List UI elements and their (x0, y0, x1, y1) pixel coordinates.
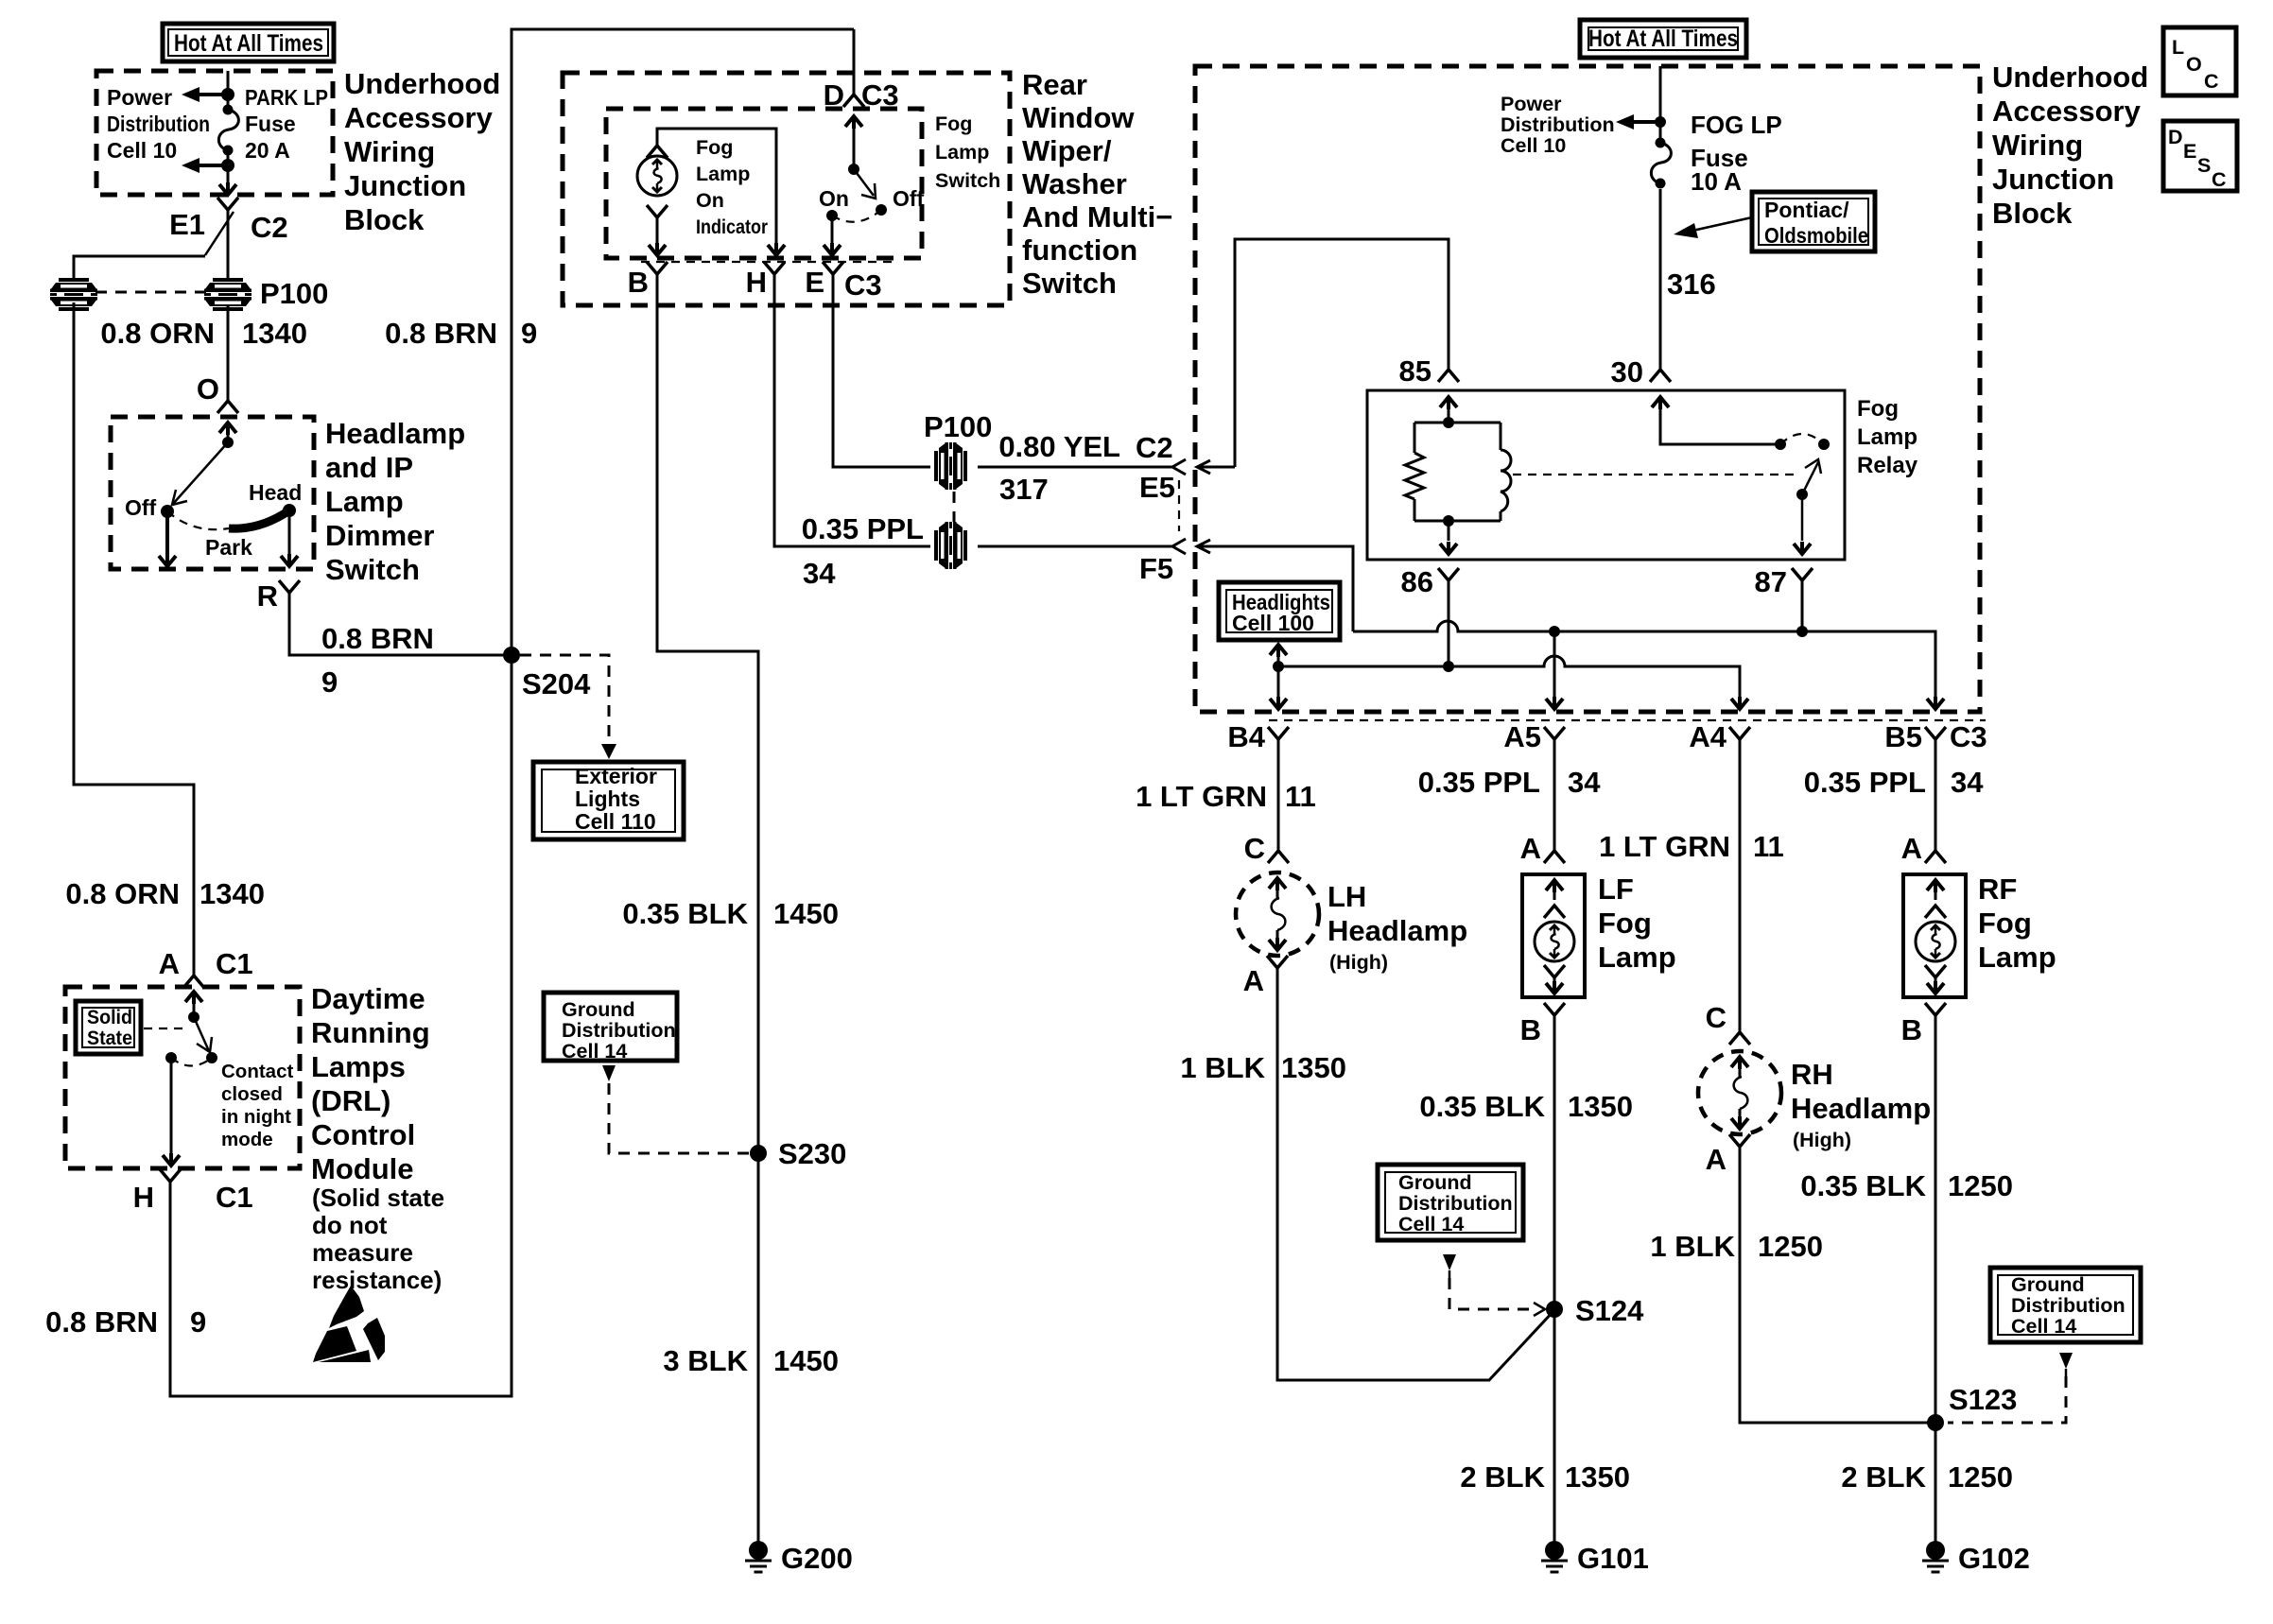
svg-text:Lamp: Lamp (1857, 424, 1917, 450)
svg-text:L: L (2172, 36, 2184, 59)
svg-text:Junction: Junction (344, 169, 466, 202)
svg-text:C3: C3 (861, 78, 899, 112)
terminal 86 (1438, 568, 1459, 580)
svg-text:P100: P100 (260, 277, 328, 310)
wire 0.8 ORN 1340 (C2 to dimmer O) (227, 304, 230, 401)
wire DRL contact to H output (163, 1058, 180, 1166)
connector P100 (left half, on E1 branch) (50, 278, 97, 311)
svg-text:A: A (1520, 832, 1541, 865)
svg-text:86: 86 (1401, 565, 1433, 598)
label Park (205, 535, 252, 560)
terminal B (RF fog lamp) (1925, 1003, 1946, 1015)
svg-text:Dimmer: Dimmer (325, 519, 434, 552)
wire relay pin 30 to common contact (1652, 397, 1780, 444)
svg-text:B4: B4 (1227, 720, 1265, 753)
wire A5 to LF fog lamp (1553, 739, 1556, 851)
dashed link Solid State to switch (144, 1028, 187, 1029)
terminal A/C1 (183, 976, 204, 988)
svg-text:B: B (1901, 1013, 1922, 1046)
svg-text:S124: S124 (1575, 1294, 1644, 1327)
terminal below indicator (647, 205, 668, 217)
node: bus 87 at A5 (1549, 626, 1560, 637)
svg-text:E: E (805, 266, 824, 299)
wire from Hot At All Times (right) (1659, 66, 1662, 141)
label 1250 (G102) (1948, 1460, 2013, 1494)
svg-text:RF: RF (1978, 872, 2017, 906)
wire E1 breakout diagonal (205, 212, 234, 255)
svg-text:Headlamp: Headlamp (1327, 914, 1467, 947)
wire Head contact down (281, 510, 298, 566)
connector C3 dashed line (junction block bottom) (1269, 719, 1986, 721)
node: Head contact (283, 504, 296, 517)
svg-text:Distribution: Distribution (107, 112, 210, 136)
wire E1 horizontal to left (74, 256, 205, 280)
svg-text:and IP: and IP (325, 451, 413, 484)
label 1450 (lower) (773, 1344, 839, 1377)
svg-text:E1: E1 (169, 208, 205, 241)
svg-text:Wiring: Wiring (344, 135, 435, 168)
svg-text:Block: Block (344, 203, 425, 236)
svg-text:E5: E5 (1139, 471, 1175, 504)
label 87 (1755, 565, 1787, 598)
label C2 (right) (1136, 431, 1173, 464)
svg-text:Window: Window (1022, 101, 1135, 134)
fuse FOG LP 10 A (1651, 138, 1671, 189)
svg-text:34: 34 (1568, 766, 1601, 799)
arrow to Power Distribution (right) (1616, 114, 1660, 130)
svg-text:Fog: Fog (1978, 907, 2032, 940)
wire A5 drop (1553, 631, 1556, 697)
label A (DRL input) (159, 947, 180, 980)
arrow to Headlights Cell 100 (1270, 645, 1287, 697)
label C3 (top) (861, 78, 899, 112)
svg-text:316: 316 (1667, 268, 1716, 301)
svg-text:S204: S204 (522, 667, 591, 700)
label: Fog Lamp Switch (935, 112, 1000, 192)
label 1340 (lower) (200, 877, 265, 910)
svg-text:Ground: Ground (562, 998, 635, 1021)
pin arrow F5 (1197, 540, 1235, 553)
svg-text:D: D (2168, 126, 2183, 148)
dashed travel arc Off to Park (167, 511, 229, 529)
label B (RF) (1901, 1013, 1922, 1046)
label S124 (1575, 1294, 1644, 1327)
ground G102 (1922, 1541, 1949, 1572)
svg-text:A: A (159, 947, 180, 980)
svg-text:Fog: Fog (1598, 907, 1652, 940)
svg-text:Accessory: Accessory (344, 101, 494, 134)
svg-text:1350: 1350 (1565, 1460, 1630, 1494)
node: relay common contact (1775, 439, 1786, 450)
terminal above indicator (647, 146, 668, 158)
svg-text:11: 11 (1753, 830, 1784, 863)
svg-text:2 BLK: 2 BLK (1460, 1460, 1545, 1494)
svg-text:0.8 BRN: 0.8 BRN (45, 1305, 158, 1339)
svg-text:Underhood: Underhood (344, 67, 500, 100)
svg-text:Junction: Junction (1992, 163, 2114, 196)
label: Contact closed in night mode (221, 1061, 293, 1150)
label 3 BLK (663, 1344, 748, 1377)
svg-text:mode: mode (221, 1129, 273, 1150)
label B (628, 266, 649, 299)
wire armature to pin 87 (1794, 494, 1811, 554)
label A (RF) (1901, 832, 1922, 865)
label: FOG LP Fuse 10 A (1691, 111, 1782, 196)
svg-text:Accessory: Accessory (1992, 95, 2142, 128)
label G102 (1958, 1542, 2030, 1575)
label 1 LT GRN (A4) (1599, 830, 1730, 863)
svg-text:O: O (2186, 53, 2202, 76)
terminal B4 (1268, 727, 1289, 739)
svg-text:Lamps: Lamps (311, 1050, 406, 1083)
label P100 (middle) (924, 410, 992, 443)
dashed wire S204 to Exterior Lights cell (520, 655, 616, 759)
terminal A (LH headlamp) (1267, 956, 1288, 968)
wire E5 to relay pin 85 (1235, 239, 1449, 467)
wire 0.8 BRN 9 long run (top and down) (170, 29, 854, 1396)
label P100 (260, 277, 328, 310)
svg-text:Hot At All Times: Hot At All Times (1588, 26, 1738, 52)
wire 316 (fuse to relay pin 30) (1659, 189, 1662, 370)
svg-text:Fog: Fog (935, 112, 972, 135)
label 0.80 YEL (998, 430, 1120, 463)
wire On contact down to E (824, 216, 841, 255)
svg-text:State: State (87, 1027, 132, 1049)
label A (LF) (1520, 832, 1541, 865)
label R (257, 579, 278, 613)
arrow to Power Distribution (upper) (182, 87, 228, 102)
DRL switch arm (194, 1017, 212, 1052)
svg-text:Cell 14: Cell 14 (562, 1040, 627, 1063)
label C1 (DRL output) (216, 1181, 253, 1214)
label B5 (1884, 720, 1922, 753)
label: Fog Lamp Relay (1857, 396, 1918, 478)
wire 0.80 YEL 317 (E to C2/E5) (833, 274, 1172, 467)
wire A4 to RH headlamp (1739, 739, 1742, 1032)
terminal fork F5 (1172, 539, 1186, 554)
terminal R (279, 580, 300, 593)
label 9 (R wire) (321, 665, 338, 699)
svg-text:LF: LF (1598, 872, 1634, 906)
svg-text:C: C (1706, 1001, 1726, 1034)
svg-text:34: 34 (803, 557, 836, 590)
RH headlamp (dashed circle) (1698, 1051, 1781, 1134)
svg-text:S230: S230 (778, 1137, 846, 1170)
relay armature arm (1802, 459, 1821, 494)
label F5 (1139, 552, 1173, 585)
svg-text:Head: Head (249, 480, 302, 505)
svg-text:Cell 10: Cell 10 (1501, 134, 1566, 157)
svg-text:H: H (746, 266, 767, 299)
label 0.35 BLK (622, 897, 748, 930)
svg-text:H: H (133, 1181, 154, 1214)
svg-text:A4: A4 (1689, 720, 1726, 753)
svg-text:Underhood: Underhood (1992, 60, 2148, 94)
svg-text:Headlamp: Headlamp (325, 417, 465, 450)
label 9 (DRL output) (190, 1305, 206, 1339)
svg-text:Washer: Washer (1022, 167, 1127, 200)
label 1 LT GRN (B4) (1136, 780, 1267, 813)
svg-text:11: 11 (1285, 780, 1316, 813)
svg-text:0.35 PPL: 0.35 PPL (802, 512, 924, 545)
svg-text:0.35 PPL: 0.35 PPL (1418, 766, 1540, 799)
dashed link coil to armature (1513, 474, 1795, 475)
Ground Distribution Cell 14 box (left) (544, 993, 677, 1063)
node S230 (750, 1145, 767, 1162)
Rear Window Wiper/Washer And Multi-function Switch dashed box (563, 73, 1010, 305)
LH headlamp (dashed circle) (1236, 872, 1319, 956)
dashed wire Ground Distribution to S230 (609, 1083, 750, 1153)
label E1 (169, 208, 205, 241)
node: bus 87 at pin 87 (1796, 626, 1808, 637)
wire indicator top to H drop (657, 129, 785, 255)
node: bus 86 at pin 86 (1443, 661, 1454, 672)
svg-text:Off: Off (893, 186, 925, 211)
wire C2 terminal to P100 (227, 210, 230, 278)
terminal B5 (1925, 727, 1946, 739)
label 34 (middle) (803, 557, 836, 590)
svg-text:Switch: Switch (1022, 267, 1117, 300)
label: Underhood Accessory Wiring Junction Block (left) (344, 67, 500, 236)
label 11 (A4) (1753, 830, 1784, 863)
label 0.8 ORN (lower) (65, 877, 180, 910)
Hot At All Times box (left) (163, 24, 334, 61)
label: RF Fog Lamp (1978, 872, 2056, 974)
svg-text:Fuse: Fuse (245, 112, 296, 136)
wire bus 87 (fog lamps feed) (1353, 621, 1935, 697)
node S204 (503, 647, 520, 664)
wire indicator bottom to B (649, 217, 666, 255)
label G200 (781, 1542, 853, 1575)
terminal 30 (1650, 370, 1671, 382)
svg-text:1450: 1450 (773, 1344, 839, 1377)
Solid State box (76, 1001, 141, 1054)
svg-text:30: 30 (1611, 355, 1643, 389)
svg-text:Power: Power (1501, 93, 1562, 115)
dashed connector link P100 (95, 291, 206, 294)
label 9 (top) (521, 317, 537, 350)
label H (fog switch) (746, 266, 767, 299)
LF Fog Lamp box (1522, 874, 1585, 997)
svg-text:0.35 PPL: 0.35 PPL (1804, 766, 1926, 799)
svg-text:0.80 YEL: 0.80 YEL (998, 430, 1120, 463)
arrow Pontiac/Oldsmobile to wire (1674, 217, 1752, 238)
svg-text:Distribution: Distribution (2011, 1294, 2126, 1317)
svg-text:9: 9 (321, 665, 338, 699)
node: power distribution tap upper (221, 88, 234, 101)
label G101 (1577, 1542, 1649, 1575)
arrow A4 at junction block edge (1731, 697, 1748, 709)
svg-text:C1: C1 (216, 947, 253, 980)
wire RH headlamp ground to S123 (1740, 1147, 1935, 1423)
svg-text:Cell 110: Cell 110 (575, 809, 656, 834)
arrow relay coil to pin 86 (1440, 521, 1457, 554)
Fog Lamp On Indicator circle (637, 156, 677, 196)
svg-text:1 BLK: 1 BLK (1180, 1051, 1265, 1084)
label 0.8 ORN (100, 317, 215, 350)
svg-text:D: D (824, 78, 844, 112)
wire 0.35 BLK 1450 (fog indicator B to S230) (657, 274, 758, 1153)
label 1 BLK (RH) (1650, 1230, 1735, 1263)
label C2 (251, 211, 288, 244)
svg-text:(Solid state: (Solid state (312, 1183, 444, 1212)
label: Rear Window Wiper/Washer And Multi-function Switch (1022, 68, 1172, 300)
svg-text:Block: Block (1992, 197, 2073, 230)
svg-text:S123: S123 (1949, 1383, 2017, 1416)
label Head (249, 480, 302, 505)
label B4 (1227, 720, 1265, 753)
label C3 (junction block) (1950, 720, 1987, 753)
svg-text:measure: measure (312, 1238, 413, 1267)
svg-text:Running: Running (311, 1016, 430, 1049)
Underhood Accessory Wiring Junction Block (right) dashed box (1195, 66, 1980, 712)
svg-text:closed: closed (221, 1083, 283, 1105)
Fog Lamp Switch inner dashed box (606, 109, 922, 258)
svg-text:O: O (197, 372, 219, 406)
svg-text:Off: Off (125, 495, 157, 520)
wire D feed from 0.8 BRN run (853, 29, 856, 95)
svg-text:On: On (819, 186, 849, 211)
label: RH Headlamp (High) (1791, 1058, 1931, 1151)
label 0.35 PPL (middle) (802, 512, 924, 545)
svg-text:Control: Control (311, 1118, 415, 1151)
svg-text:Solid: Solid (87, 1006, 132, 1028)
arrow below Ground Distribution Cell 14 (left) (602, 1065, 616, 1081)
svg-text:1 LT GRN: 1 LT GRN (1136, 780, 1267, 813)
label: PARK LP Fuse 20 A (245, 85, 328, 163)
RF Fog Lamp box (1903, 874, 1966, 997)
node S123 (1927, 1414, 1944, 1431)
svg-text:G102: G102 (1958, 1542, 2030, 1575)
svg-text:Lamp: Lamp (696, 163, 750, 185)
svg-text:Pontiac/: Pontiac/ (1764, 198, 1849, 222)
svg-text:(High): (High) (1793, 1129, 1851, 1151)
svg-text:C2: C2 (1136, 431, 1173, 464)
terminal O at dimmer switch (217, 401, 238, 413)
wire below fuse (227, 150, 230, 192)
node: DRL contact left (165, 1052, 177, 1063)
Pontiac/Oldsmobile box (1752, 192, 1875, 251)
node: Off contact (fog) (876, 204, 887, 216)
svg-text:0.8 ORN: 0.8 ORN (100, 317, 215, 350)
svg-text:1 BLK: 1 BLK (1650, 1230, 1735, 1263)
Hot At All Times box (right) (1580, 20, 1746, 58)
svg-text:Module: Module (311, 1152, 414, 1185)
svg-text:A: A (1901, 832, 1922, 865)
connector P100 (right half, on C2 wire) (204, 278, 252, 311)
svg-text:9: 9 (521, 317, 537, 350)
svg-text:Lamp: Lamp (1978, 941, 2056, 974)
label 85 (1399, 354, 1431, 388)
svg-text:Daytime: Daytime (311, 982, 425, 1015)
label 0.35 BLK (LF) (1419, 1090, 1545, 1123)
svg-text:(DRL): (DRL) (311, 1084, 390, 1117)
svg-text:Oldsmobile: Oldsmobile (1764, 223, 1868, 248)
label: LH Headlamp (High) (1327, 880, 1467, 974)
svg-text:1 LT GRN: 1 LT GRN (1599, 830, 1730, 863)
label: Underhood Accessory Wiring Junction Block (right) (1992, 60, 2148, 230)
svg-text:1340: 1340 (242, 317, 307, 350)
svg-text:(High): (High) (1329, 951, 1388, 974)
svg-text:87: 87 (1755, 565, 1787, 598)
svg-text:Rear: Rear (1022, 68, 1087, 101)
terminal 85 (1438, 370, 1459, 382)
arrow B4 at junction block edge (1270, 697, 1287, 709)
wire B5 to RF fog lamp (1935, 739, 1937, 851)
svg-text:Power: Power (107, 85, 172, 110)
fog switch arm (pointing to Off) (854, 169, 876, 199)
label C (LH) (1244, 832, 1265, 865)
svg-text:Distribution: Distribution (1501, 113, 1615, 136)
svg-text:do not: do not (312, 1211, 388, 1239)
label S230 (778, 1137, 846, 1170)
svg-text:Hot At All Times: Hot At All Times (174, 30, 323, 57)
terminal H/C1 (160, 1169, 181, 1182)
label E (805, 266, 824, 299)
node: relay coil bottom (1443, 515, 1454, 527)
connector P100 on PPL wire (934, 522, 967, 569)
dashed wire Ground Distribution to S124 (1449, 1278, 1545, 1316)
Headlamp and IP Lamp Dimmer Switch dashed box (111, 417, 314, 569)
wire from Hot At All Times into junction block (227, 71, 230, 109)
svg-text:10 A: 10 A (1691, 167, 1742, 196)
svg-text:1340: 1340 (200, 877, 265, 910)
dashed contact arc DRL (171, 1058, 212, 1066)
wire bus 86 (headlamps feed) (1278, 656, 1740, 697)
coil (relay) (1501, 450, 1511, 511)
label C3 (bottom) (844, 268, 882, 302)
terminal E (823, 262, 843, 274)
label D (824, 78, 844, 112)
terminal B (647, 262, 668, 274)
node: On contact (fog) (826, 210, 838, 221)
fuse PARK LP 20 A (218, 105, 238, 156)
svg-text:And Multi−: And Multi− (1022, 200, 1172, 233)
terminal A4 (1729, 727, 1750, 739)
relay coil/resistor parallel block (1414, 423, 1501, 521)
svg-text:A: A (1243, 964, 1264, 997)
arrow below Ground Distribution Cell 14 (middle) (1443, 1254, 1456, 1278)
svg-text:C1: C1 (216, 1181, 253, 1214)
node: power distribution tap (right) (1655, 116, 1666, 128)
svg-text:1250: 1250 (1758, 1230, 1823, 1263)
label 1350 (LF) (1568, 1090, 1633, 1123)
svg-text:C: C (2212, 168, 2227, 191)
svg-text:B5: B5 (1884, 720, 1922, 753)
label H (133, 1181, 154, 1214)
wire RF fog lamp to G102 (1935, 1015, 1937, 1544)
label 34 (A5) (1568, 766, 1601, 799)
Daytime Running Lamps (DRL) Control Module dashed box (65, 987, 300, 1168)
label: Daytime Running Lamps (DRL) Control Module (311, 982, 444, 1294)
label: Fog Lamp On Indicator (696, 136, 769, 238)
svg-text:function: function (1022, 233, 1137, 267)
svg-text:Fog: Fog (1857, 396, 1899, 422)
label 1250 (RH) (1758, 1230, 1823, 1263)
label 2 BLK (G101) (1460, 1460, 1545, 1494)
terminal fork C2/E5 (1172, 459, 1186, 475)
svg-text:C3: C3 (844, 268, 882, 302)
svg-text:Lamp: Lamp (935, 141, 989, 164)
label Off (dimmer) (125, 495, 157, 520)
label 1350 (G101) (1565, 1460, 1630, 1494)
node: bus 86 at B4 (1273, 661, 1284, 672)
Park contact thick arc (229, 510, 289, 528)
terminal 87 (1792, 568, 1813, 580)
wire 0.35 PPL 34 (H to F5) (774, 274, 1172, 546)
Underhood Accessory Wiring Junction Block (left) dashed box (96, 71, 333, 195)
label E5 (1139, 471, 1175, 504)
